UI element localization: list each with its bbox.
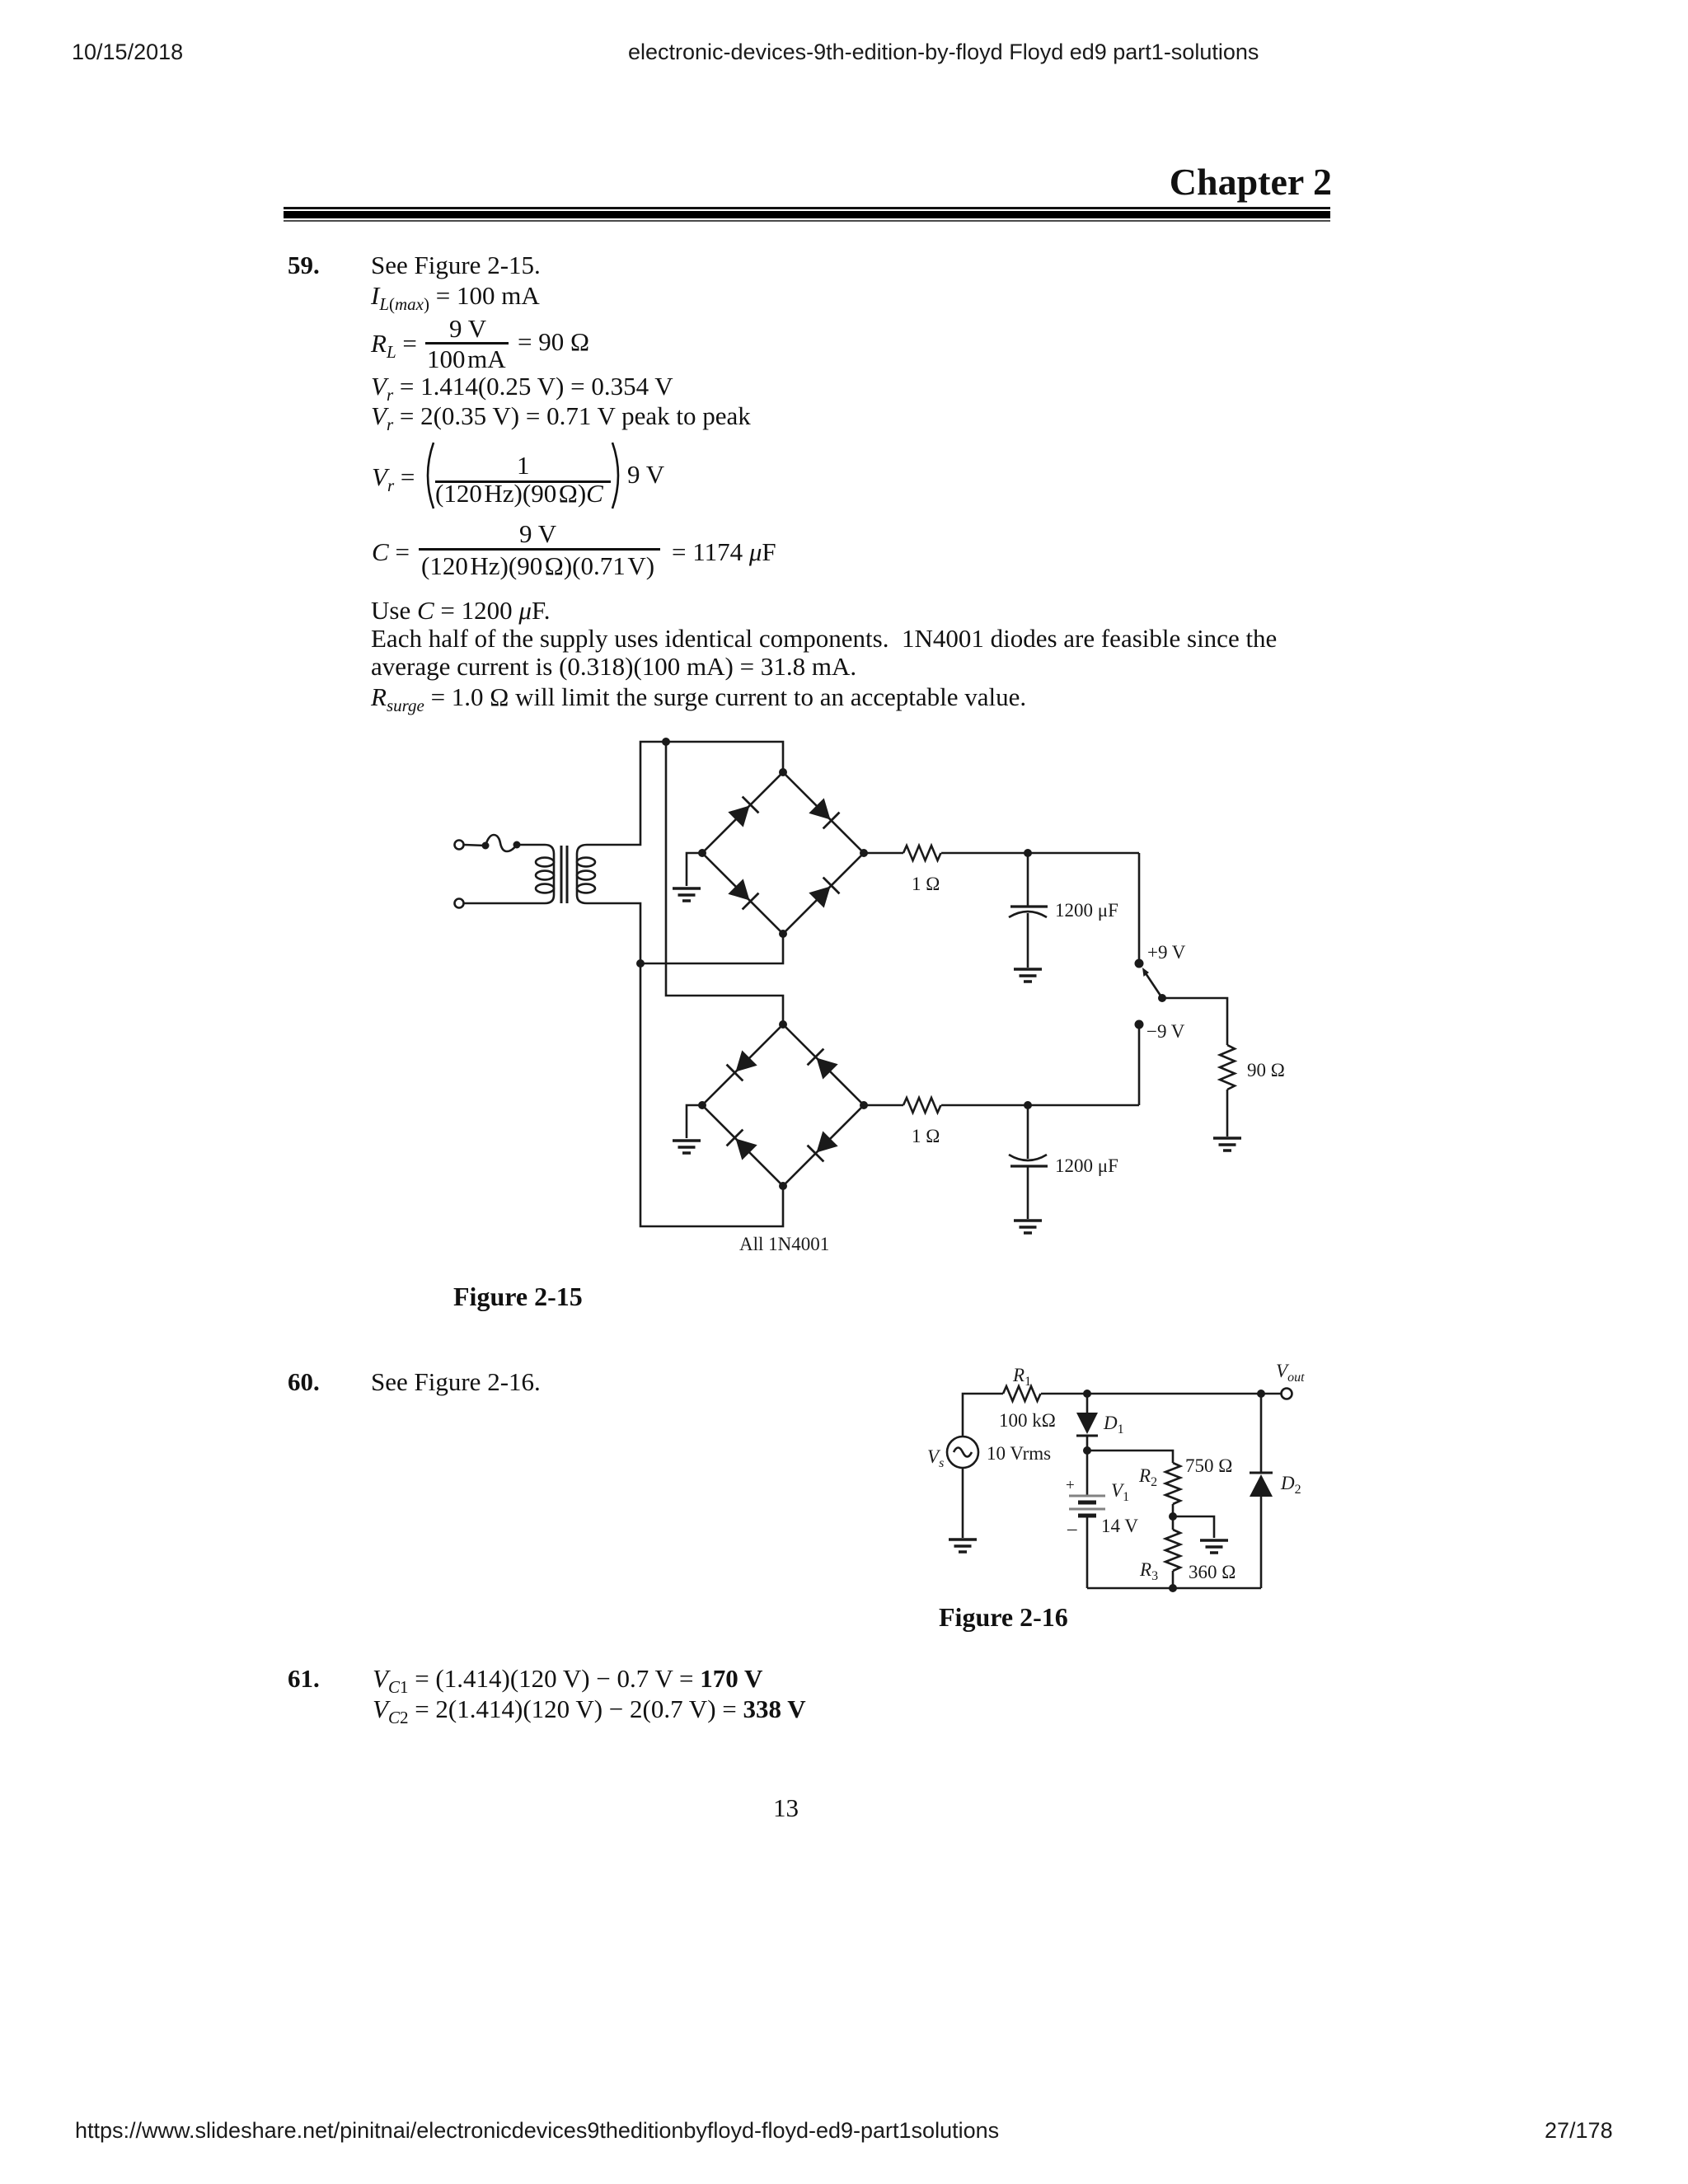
svg-text:–: – [1067,1518,1077,1539]
svg-text:R2: R2 [1138,1465,1157,1489]
capacitor C1 1200uF [1009,853,1048,968]
wire Vs to ground [962,1468,964,1538]
RL equation [371,330,417,361]
wire R2 to R3 [1172,1504,1175,1530]
node BR2 right [860,1101,868,1109]
battery V1 14V [1069,1451,1105,1588]
svg-text:D1: D1 [1103,1413,1124,1436]
svg-text:14 V: 14 V [1101,1516,1138,1536]
diode D2d (BR2 lower-right) [808,1131,839,1162]
double rule [284,207,1330,209]
wire RL to ground [1226,1090,1229,1137]
header date [72,41,183,63]
svg-text:360 Ω: 360 Ω [1189,1562,1236,1582]
svg-text:1 Ω: 1 Ω [912,1126,940,1146]
node filter cap 1 [1024,849,1032,857]
svg-text:10 Vrms: 10 Vrms [987,1443,1051,1464]
ground mid [1200,1540,1228,1553]
ground below RL [1213,1138,1241,1151]
ground below Vs [949,1540,977,1552]
node -9V [1135,1020,1144,1029]
diode D1d (BR1 lower-right) [809,878,840,909]
wire secondary bottom [587,903,640,963]
resistor R surge 1 ohm (top) [903,846,941,860]
node bottom rail [1169,1584,1177,1592]
resistor R1 100k [1003,1386,1041,1401]
wire node to R2 [1087,1451,1173,1463]
source Vs [947,1436,978,1468]
wire -9V node down [1138,1024,1141,1105]
transformer T1 primary winding [536,845,554,903]
switch SW1 blade [1142,968,1162,998]
wire [464,902,545,905]
wire [464,845,485,846]
input terminal J2 (bottom) [455,899,464,908]
FIGURE 2-15: dual-polarity power supply schematic [437,725,1360,1286]
diode D1b (BR1 upper-right) [809,798,840,829]
footer page [1545,2120,1613,2142]
diode D2c (BR2 lower-left) [727,1130,758,1161]
bridge rectifier BR2 diamond [702,1024,864,1186]
wire [941,852,1139,855]
diode D1a (BR1 upper-left) [728,797,759,828]
resistor R2 750 ohm [1165,1463,1180,1504]
ground below C2 [1014,1221,1042,1233]
resistor RL 90 ohm [1220,1045,1235,1090]
wire [941,1104,1139,1107]
node: secondary top junction [662,738,670,746]
diode D1c (BR1 lower-left) [728,879,759,910]
svg-text:All 1N4001: All 1N4001 [739,1234,829,1254]
wire to bridge 1 bottom [640,934,783,963]
capacitor C2 1200uF [1009,1105,1048,1219]
wire [517,844,545,846]
node filter cap 2 [1024,1101,1032,1109]
header title [628,41,1259,63]
diode D2a (BR2 upper-left) [727,1050,758,1081]
svg-text:1 Ω: 1 Ω [912,874,940,894]
svg-text:R1: R1 [1012,1365,1031,1389]
svg-text:90 Ω: 90 Ω [1247,1060,1285,1080]
problem 59 [288,252,320,278]
problem 60 [288,1369,320,1394]
wire R1 to Vout [1041,1393,1281,1395]
wire Vs to R1 [963,1394,1003,1436]
svg-text:D2: D2 [1280,1473,1301,1497]
node BR1 right [860,849,868,857]
node: secondary bottom junction [636,959,645,968]
Chapter 2 heading [1170,163,1332,201]
diode D1 [1076,1394,1098,1451]
wire to bridge 2 bottom [640,963,783,1226]
node BR1 left [698,849,706,857]
svg-text:1200 μF: 1200 μF [1055,900,1118,921]
diode D2b (BR2 upper-right) [808,1049,839,1080]
svg-text:Vs: Vs [927,1446,944,1470]
page number [773,1795,799,1821]
bottom rail wire [1087,1587,1261,1590]
ground at BR2 left [673,1105,702,1153]
node BR2 left [698,1101,706,1109]
node +9V [1135,959,1144,968]
node BR1 bottom [779,930,787,938]
C equation [372,539,410,565]
svg-text:V1: V1 [1111,1480,1129,1504]
svg-text:R3: R3 [1139,1559,1158,1583]
svg-text:750 Ω: 750 Ω [1185,1455,1232,1476]
problem 61 [288,1666,320,1691]
node D2 top [1257,1390,1265,1398]
svg-text:100 kΩ: 100 kΩ [999,1410,1056,1431]
resistor R3 360 ohm [1165,1530,1180,1571]
node D1 bottom [1083,1446,1091,1455]
svg-text:−9 V: −9 V [1146,1021,1185,1042]
svg-text:+9 V: +9 V [1147,942,1186,963]
figure 2-15 caption [453,1283,583,1310]
resistor R surge 1 ohm (bottom) [903,1098,941,1113]
wire junction to ground [1173,1516,1214,1538]
svg-text:+: + [1066,1477,1075,1494]
footer url [75,2120,999,2142]
svg-text:Vout: Vout [1276,1361,1305,1385]
ground at BR1 left [673,853,702,901]
input terminal J1 (top) [455,841,464,850]
node D1 top [1083,1390,1091,1398]
node switch pole [1158,994,1166,1002]
wire secondary top to top rail [587,742,783,845]
svg-text:1200 μF: 1200 μF [1055,1155,1118,1176]
output terminal Vout [1282,1389,1292,1399]
node BR2 top [779,1020,787,1029]
wire BR2 right to resistor [864,1104,903,1107]
diode D2 [1250,1394,1273,1588]
bridge rectifier BR1 diamond [702,772,864,934]
node BR2 bottom [779,1182,787,1190]
FIGURE 2-16: limiter circuit schematic [907,1335,1335,1615]
wire pole to load [1162,998,1227,1045]
node BR1 top [779,768,787,776]
fuse F1 [482,835,521,851]
figure 2-16 caption [939,1604,1068,1630]
wire BR1 right to resistor [864,852,903,855]
transformer T1 secondary winding [577,845,595,903]
ground below C1 [1014,969,1042,982]
Vr big paren equation [372,464,415,494]
node R2/R3 junction [1169,1512,1177,1521]
wire down to +9V node [1138,853,1141,963]
transformer T1 core [561,846,567,903]
wire R3 to bottom rail [1172,1571,1175,1588]
wire from node down to bridge 2 top [666,742,783,1024]
